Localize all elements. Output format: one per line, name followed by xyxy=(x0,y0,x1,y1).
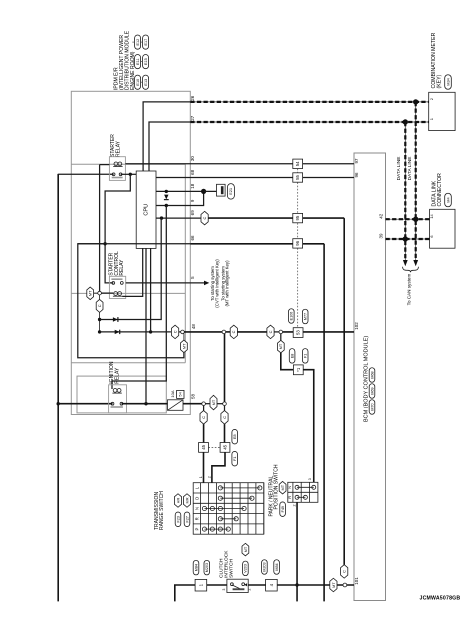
dashed wire BCM 39 to DLC 6 xyxy=(386,238,430,240)
svg-text:E15: E15 xyxy=(144,58,148,65)
clutch interlock switch symbol xyxy=(227,579,248,592)
junction starter relay output xyxy=(129,173,132,176)
wire CPU pin 9 xyxy=(156,191,204,205)
connector box 96 xyxy=(293,239,303,248)
ovals M84 M203 left xyxy=(193,560,199,575)
svg-text:RANGE SWITCH: RANGE SWITCH xyxy=(159,491,165,530)
svg-text:MT: MT xyxy=(88,290,93,296)
TRS contact circles xyxy=(202,486,262,531)
vertical link to ignition wire circle xyxy=(224,334,226,402)
oval F27 xyxy=(184,512,190,527)
svg-text:V203: V203 xyxy=(244,564,248,573)
IPDM inner gray partition around CPU/relays xyxy=(71,163,185,165)
svg-text:18: 18 xyxy=(190,183,195,189)
svg-text:55: 55 xyxy=(295,175,300,180)
svg-text:45: 45 xyxy=(201,444,206,449)
ovals E106 M77 xyxy=(289,309,295,324)
oval F49 xyxy=(280,502,286,517)
svg-text:58: 58 xyxy=(190,394,195,400)
starter control relay coil xyxy=(114,292,118,296)
starter relay coil xyxy=(114,162,118,166)
diode D1 xyxy=(113,317,118,321)
wire starter relay coil right / BCM97 control wire xyxy=(125,163,354,165)
svg-text:E21: E21 xyxy=(228,188,233,195)
option circle MT split 1 xyxy=(181,330,185,334)
svg-text:RELAY: RELAY xyxy=(114,367,120,384)
svg-text:30: 30 xyxy=(190,156,195,162)
option circle clutch/BCM101 xyxy=(343,583,347,587)
svg-text:MR: MR xyxy=(184,497,189,503)
svg-text:9: 9 xyxy=(190,199,195,202)
svg-text:E10: E10 xyxy=(136,79,140,86)
wire battery to starter relay contact xyxy=(58,173,113,175)
svg-text:*1: *1 xyxy=(296,367,301,372)
junction CPU ignition sense xyxy=(144,402,147,405)
wire SCR output to starting system arrow xyxy=(126,282,205,284)
junction pin18/pin9 node xyxy=(201,189,206,194)
svg-text:P: P xyxy=(194,527,199,530)
svg-text:MT: MT xyxy=(331,582,336,588)
connector box *1 xyxy=(293,365,303,375)
svg-text:101: 101 xyxy=(354,577,359,585)
svg-text:MT: MT xyxy=(243,546,248,552)
svg-text:M203: M203 xyxy=(263,562,267,571)
connector box 54 on wire xyxy=(293,159,303,168)
svg-text:N: N xyxy=(194,507,199,510)
wire to second option circle xyxy=(184,331,222,333)
svg-text:M34: M34 xyxy=(445,77,450,85)
wire ignition relay output to fuse xyxy=(122,403,168,405)
svg-text:96: 96 xyxy=(354,172,359,178)
fuse 10A #54 xyxy=(168,400,184,411)
wire P/N pin 2 down to clutch wire xyxy=(296,502,298,601)
svg-text:M77: M77 xyxy=(304,313,308,320)
ovals M203 M84 right xyxy=(262,560,268,575)
svg-text:M68: M68 xyxy=(370,371,374,378)
svg-text:5: 5 xyxy=(190,276,195,279)
svg-text:R: R xyxy=(287,496,292,499)
svg-text:2: 2 xyxy=(293,505,297,507)
svg-text:C: C xyxy=(97,304,102,307)
svg-text:N: N xyxy=(287,486,292,489)
dotted connector line between boxes 54/55/95/96/53 xyxy=(297,169,299,173)
hexagon MT tag at coil ground split xyxy=(87,287,94,300)
svg-text:E8: E8 xyxy=(233,434,237,439)
wire CAN-L inside IPDM xyxy=(149,122,190,171)
starter control relay contact circles xyxy=(112,282,115,285)
dashed wire BCM 42 to DLC 14 xyxy=(386,218,430,220)
starter relay SR box xyxy=(109,157,125,181)
hexagon MT inline ignition xyxy=(205,403,210,405)
wire to connector 53 and BCM pin 102 xyxy=(283,331,354,333)
junction coil-ground to diode wires xyxy=(98,318,101,321)
svg-text:54: 54 xyxy=(295,161,300,166)
CAN-H dashed data line to combination meter xyxy=(190,101,428,103)
connector box 45 left xyxy=(199,443,209,453)
svg-text:E12: E12 xyxy=(136,39,140,46)
transmission range switch grid xyxy=(193,483,264,535)
vertical dashed data line 1 xyxy=(415,102,417,261)
IPDM inner gray line through starter control relay coil xyxy=(71,292,185,294)
svg-text:BCM (BODY CONTROL MODULE): BCM (BODY CONTROL MODULE) xyxy=(363,336,369,422)
svg-text:C: C xyxy=(173,330,178,333)
wire clutch interlock row xyxy=(175,585,354,601)
connector box 4 xyxy=(266,579,278,591)
svg-text:1: 1 xyxy=(199,476,203,478)
IPDM inner gray box around ignition relay xyxy=(77,376,166,413)
svg-text:RELAY: RELAY xyxy=(119,259,125,276)
svg-text:C: C xyxy=(201,416,206,419)
svg-text:DATA LINE: DATA LINE xyxy=(407,157,413,181)
option circle ignition A xyxy=(202,402,206,406)
svg-text:26: 26 xyxy=(190,95,195,101)
connector box 53 xyxy=(293,328,303,338)
oval F23 xyxy=(175,512,181,527)
wire 45 right dogleg to TRS pin 2 xyxy=(212,452,225,482)
wire CPU third bottom pin xyxy=(150,248,152,332)
svg-text:95: 95 xyxy=(295,215,300,220)
hexagon C on wire 69 xyxy=(201,211,208,225)
wire MT-branch west leg xyxy=(78,244,184,358)
CAN-L dashed data line to combination meter xyxy=(190,121,428,123)
wire SCR coil right pin up to CPU xyxy=(122,248,143,296)
svg-text:SWITCH: SWITCH xyxy=(229,559,235,578)
wire starter relay output xyxy=(121,173,137,175)
wire CPU pin 66 long wire xyxy=(78,243,191,245)
svg-text:R: R xyxy=(194,517,199,520)
svg-text:C: C xyxy=(268,330,273,333)
wire starter relay coil left to ground chain xyxy=(100,164,110,166)
svg-text:48: 48 xyxy=(191,324,196,330)
hexagon MT tag below xyxy=(183,334,185,341)
wire diode chain down to ignition coil xyxy=(112,206,166,390)
svg-text:MT: MT xyxy=(211,399,216,405)
svg-text:69: 69 xyxy=(190,210,195,216)
svg-text:66: 66 xyxy=(190,235,195,241)
hexagon C inline below circle xyxy=(99,295,101,300)
connector box 95 xyxy=(293,213,303,222)
wire CPU second bottom pin down xyxy=(145,248,147,403)
svg-text:6: 6 xyxy=(429,235,434,237)
ignition relay contact bar xyxy=(111,406,123,408)
wire diode 2 row / BCM102 net xyxy=(100,331,171,333)
svg-text:53: 53 xyxy=(296,330,301,335)
svg-text:3: 3 xyxy=(222,588,226,590)
svg-text:E17: E17 xyxy=(144,39,148,46)
svg-text:D: D xyxy=(194,497,199,500)
hexagon C inline wire 102 xyxy=(172,325,179,339)
junction CAN-L at meter xyxy=(403,119,408,124)
svg-text:M203: M203 xyxy=(205,563,209,572)
svg-text:CPU: CPU xyxy=(144,204,150,216)
IPDM E/R module outline (gray box) xyxy=(71,91,190,414)
svg-text:C: C xyxy=(222,416,227,419)
svg-text:M84: M84 xyxy=(194,564,198,571)
svg-text:M4: M4 xyxy=(445,196,450,202)
oval V203 xyxy=(243,561,249,576)
svg-text:96: 96 xyxy=(295,240,300,245)
svg-text:(KEY): (KEY) xyxy=(436,74,442,88)
svg-text:INTERLOCK: INTERLOCK xyxy=(224,550,230,578)
svg-text:102: 102 xyxy=(354,322,359,330)
svg-text:M70: M70 xyxy=(370,403,374,410)
svg-text:10A: 10A xyxy=(170,390,175,397)
arrowheads to CAN system xyxy=(403,260,408,266)
wire E21 stub xyxy=(204,190,221,192)
svg-text:2: 2 xyxy=(248,588,252,590)
svg-text:CONNECTOR: CONNECTOR xyxy=(437,173,443,207)
IPDM connector ovals E12 E17 E11 E15 E10 E13 xyxy=(135,35,141,49)
data link connector box xyxy=(430,209,455,248)
svg-text:39: 39 xyxy=(378,233,383,239)
wire 45 left to TRS pin 1 xyxy=(203,452,205,482)
connector box 55 xyxy=(293,173,303,182)
svg-text:68: 68 xyxy=(190,169,195,175)
starter relay contact circles xyxy=(112,173,115,176)
junction data line at DLC wire xyxy=(413,217,418,222)
wire ignition relay feed xyxy=(58,403,112,405)
ovals E8 F1 at 45 connector xyxy=(232,429,238,444)
svg-text:E11: E11 xyxy=(136,58,140,64)
dashed link between 45 boxes xyxy=(208,446,220,448)
svg-text:42: 42 xyxy=(378,213,383,219)
svg-text:M69: M69 xyxy=(370,387,374,394)
wire star-1 to park/neutral switch pin 3 xyxy=(303,370,314,483)
wire relay output drop to SCR contact xyxy=(105,174,130,283)
option circle split 2 (to ignition net) xyxy=(222,330,226,334)
diode between wire18 and wire9 xyxy=(165,190,168,193)
wire CAN-H inside IPDM xyxy=(143,102,190,171)
fuse number box 54 xyxy=(177,390,184,398)
P/N contact circles xyxy=(295,485,316,499)
drop from circle A through hexagon C to connector 45 left xyxy=(203,406,205,411)
svg-text:E8: E8 xyxy=(290,354,294,359)
connector M34 oval xyxy=(445,75,452,90)
ovals E8 F1 at star-1 xyxy=(289,349,295,364)
option circle ignition B xyxy=(223,402,227,406)
ignition relay box xyxy=(109,385,127,413)
svg-text:F27: F27 xyxy=(185,516,189,522)
connector box 45 right xyxy=(220,443,230,453)
BCM (body control module) box xyxy=(354,153,386,601)
svg-text:(MT with Intelligent Key): (MT with Intelligent Key) xyxy=(225,260,230,307)
junction wire69 branch xyxy=(160,216,163,219)
vertical dashed data line 2 xyxy=(404,122,406,261)
wire 69 corner down to clutch junction xyxy=(343,218,345,565)
junction to MT-branch/pin66 wire xyxy=(103,242,106,245)
wire CPU pin 69 xyxy=(156,217,209,219)
wire vertical coil-ground chain x=99.6 xyxy=(99,165,101,294)
hexagon C before MT split 3 xyxy=(267,325,274,339)
svg-text:MT: MT xyxy=(278,343,283,349)
hexagon HR xyxy=(174,494,181,508)
ignition relay contact circles xyxy=(111,402,114,405)
connector E21 symbol xyxy=(217,184,226,196)
wire 66 corner down xyxy=(323,244,325,602)
bracket under CAN arrows xyxy=(403,267,419,272)
starter control relay contact bar xyxy=(111,278,122,280)
wire SCR coil left pin to option circle xyxy=(100,292,114,294)
starter control relay box xyxy=(109,276,125,298)
svg-text:2: 2 xyxy=(208,476,212,478)
connector E21 oval xyxy=(227,184,234,200)
MT branch from split 3 to star-1 connector xyxy=(280,334,282,341)
svg-text:97: 97 xyxy=(354,158,359,164)
svg-text:C: C xyxy=(231,330,236,333)
combination meter box xyxy=(429,92,455,130)
drop from circle B through hexagon C to connector 45 right xyxy=(224,406,226,411)
svg-text:C: C xyxy=(202,217,207,220)
connector box 1 xyxy=(195,579,207,591)
starter relay movable contact bar xyxy=(112,177,123,179)
svg-text:CLUTCH: CLUTCH xyxy=(218,558,224,578)
svg-text:M84: M84 xyxy=(275,563,279,570)
junction CAN-H at meter xyxy=(413,99,418,104)
svg-text:To CAN system: To CAN system xyxy=(407,274,412,306)
ignition relay coil xyxy=(113,389,117,393)
hexagon MT at P/N switch xyxy=(279,481,286,494)
connector M4 oval xyxy=(445,193,452,207)
svg-text:MT: MT xyxy=(280,484,285,490)
svg-text:3: 3 xyxy=(308,478,312,480)
svg-text:45: 45 xyxy=(223,444,228,449)
svg-text:C: C xyxy=(342,570,347,573)
hexagon C after circle 2 xyxy=(226,331,231,333)
wire battery feed left vertical xyxy=(57,174,59,602)
svg-text:HR: HR xyxy=(175,498,180,504)
wire CPU pin 08 to BCM 96 xyxy=(156,177,354,179)
svg-text:F1: F1 xyxy=(304,354,308,358)
svg-text:2: 2 xyxy=(429,98,434,100)
svg-text:E13: E13 xyxy=(144,79,148,86)
ovals M68 M69 M70 xyxy=(369,368,375,383)
svg-text:(CVT with Intelligent Key): (CVT with Intelligent Key) xyxy=(214,259,219,308)
diode D2 xyxy=(115,330,120,334)
hexagon MT inline clutch wire xyxy=(330,578,337,592)
svg-text:JCMWA5078GB: JCMWA5078GB xyxy=(420,596,461,602)
option circle MT split 3 xyxy=(279,330,283,334)
svg-text:1: 1 xyxy=(429,118,434,120)
svg-text:27: 27 xyxy=(190,115,195,121)
park/neutral switch grid xyxy=(288,482,318,502)
junction CPU drop on wire xyxy=(149,330,152,333)
svg-text:F1: F1 xyxy=(233,457,237,461)
wire CPU pin 18 to E21 xyxy=(156,190,204,192)
CPU box xyxy=(136,171,156,248)
wire fuse to option circles xyxy=(183,403,202,405)
hexagon MT above clutch switch xyxy=(242,543,249,556)
hexagon C on CVT drop xyxy=(341,565,348,579)
svg-text:POSITION SWITCH: POSITION SWITCH xyxy=(274,464,280,509)
junction battery/ignition relay xyxy=(57,402,60,405)
svg-text:MT: MT xyxy=(181,343,186,349)
hexagon MR xyxy=(183,494,190,508)
arrow to starting system xyxy=(204,281,209,286)
svg-text:RELAY: RELAY xyxy=(115,140,121,157)
svg-text:F49: F49 xyxy=(281,506,285,512)
wire diode 1 row xyxy=(100,218,162,319)
svg-text:E106: E106 xyxy=(290,312,294,321)
svg-text:DATA LINE: DATA LINE xyxy=(396,157,402,181)
svg-text:F23: F23 xyxy=(176,516,180,522)
option split circle on coil ground xyxy=(98,291,102,295)
